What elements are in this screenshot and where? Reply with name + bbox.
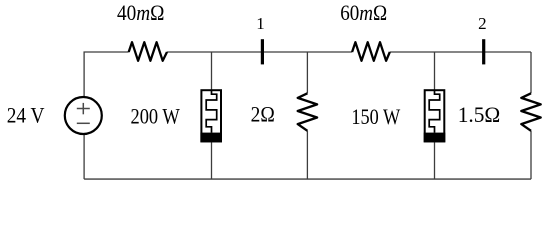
wire branch 150W bottom [434,142,436,179]
wire right: 1.5ohm to bottom corner [530,131,532,179]
node 1 tick [261,39,264,64]
wire branch 2ohm top [306,52,308,93]
wire branch 150W top [434,52,436,90]
voltage source minus sign [77,122,90,124]
svg-text:60mΩ: 60mΩ [340,0,387,25]
load element 200 W bottom bar [200,133,222,143]
load element 200 W heater meander [206,90,217,132]
svg-text:24 V: 24 V [7,103,45,128]
svg-text:2: 2 [478,14,487,33]
wire top-left: from source up and right to 40mohm [84,52,129,97]
voltage source plus sign [77,108,90,110]
svg-text:1.5Ω: 1.5Ω [458,102,501,127]
wire branch 2ohm bottom [306,131,308,179]
load element 150 W bottom bar [424,133,446,143]
resistor 1.5ohm zigzag (vertical) [521,93,540,131]
wire right: top corner down to 1.5ohm [530,52,532,93]
wire top: 60mohm to top-right corner [390,51,531,53]
load element 150 W box [425,90,445,141]
svg-text:2Ω: 2Ω [251,101,275,126]
wire top: 40mohm to 60mohm [167,51,352,53]
wire left: below source to bottom-left corner [83,134,85,179]
load element 150 W heater meander [429,90,440,132]
resistor 40mOhm zigzag [129,42,167,61]
svg-text:200 W: 200 W [131,103,181,128]
svg-text:150 W: 150 W [351,104,400,129]
wire branch 200W bottom [211,142,213,179]
node 2 tick [482,39,485,64]
wire branch 200W top [211,52,213,90]
svg-text:1: 1 [256,14,265,33]
voltage source V circle [65,97,102,134]
wire bottom [84,178,531,180]
svg-text:40mΩ: 40mΩ [117,0,165,25]
resistor 60mOhm zigzag [352,42,390,61]
resistor 2ohm zigzag (vertical) [298,93,317,131]
load element 200 W box [201,90,221,141]
